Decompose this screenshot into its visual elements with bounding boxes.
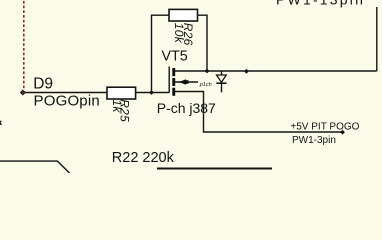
svg-text:D9: D9 [33,75,53,92]
svg-text:1k: 1k [110,99,124,113]
svg-text:10k: 10k [172,23,186,44]
svg-text:POGOpin: POGOpin [34,93,100,110]
svg-text:p1ch: p1ch [199,82,212,88]
svg-text:+5V PIT POGO: +5V PIT POGO [290,121,359,132]
svg-text:VT5: VT5 [162,48,188,64]
svg-text:PW1-3pin: PW1-3pin [292,135,336,146]
svg-text:R22 220k: R22 220k [112,150,175,166]
svg-text:PW1-13pin: PW1-13pin [276,0,365,8]
svg-text:P-ch j387: P-ch j387 [157,100,216,116]
